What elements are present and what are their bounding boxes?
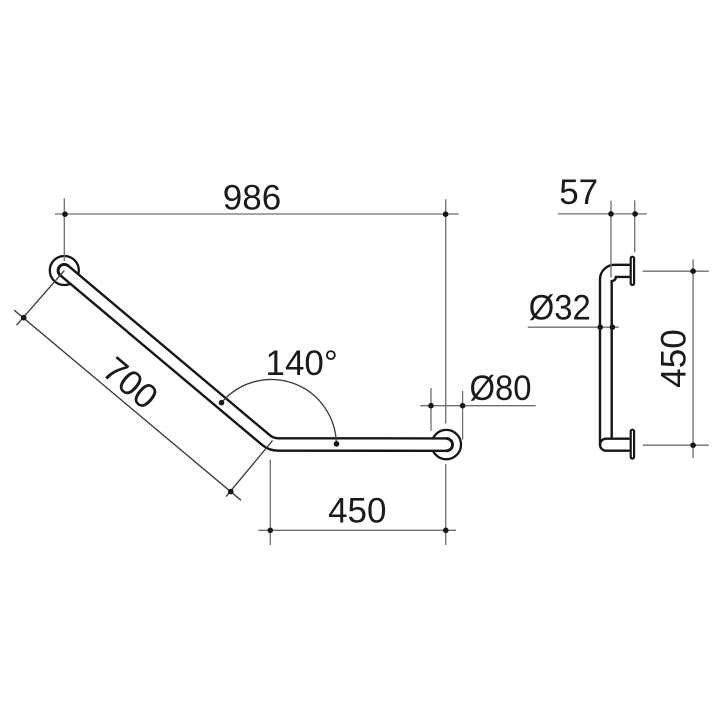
dot 700 lower xyxy=(228,489,234,495)
ext line 57 right vertical xyxy=(634,200,636,252)
dot 57 left xyxy=(608,211,614,217)
side view bottom tube top edge xyxy=(606,438,630,440)
ext line left flange vertical xyxy=(63,198,65,261)
svg-text:57: 57 xyxy=(559,173,598,212)
dot 986 right xyxy=(443,211,449,217)
dot arc end on horizontal bar xyxy=(334,441,340,447)
side view rail cap top quarter xyxy=(600,439,606,445)
dim line 450 bottom xyxy=(258,529,456,531)
bar end cap ring left xyxy=(58,264,68,275)
side view bottom flange plate xyxy=(631,430,634,459)
svg-text:986: 986 xyxy=(223,179,281,218)
dot 450 right top xyxy=(690,268,696,274)
grab rail bar (front view) outline xyxy=(64,271,446,445)
leader line O32 xyxy=(528,326,619,328)
witness line O80 left xyxy=(430,388,432,431)
flange outer circle right xyxy=(432,430,461,459)
dot O80 right xyxy=(460,403,466,409)
dot O32 left xyxy=(597,324,603,330)
dot 57 right xyxy=(632,211,638,217)
dim line 450 right vertical xyxy=(692,259,694,458)
bar end cap ring right xyxy=(446,438,452,450)
svg-text:Ø80: Ø80 xyxy=(470,369,532,408)
grab rail bar (front view) white interior xyxy=(64,271,446,445)
dim line 700 diagonal xyxy=(14,310,241,500)
ext line right flange vertical above xyxy=(445,199,447,423)
dot O80 left xyxy=(428,403,434,409)
ext line right flange vertical below xyxy=(445,464,447,545)
dot 450 bottom right xyxy=(443,528,449,534)
dot O32 right xyxy=(610,324,616,330)
svg-text:450: 450 xyxy=(654,329,693,387)
dim line 986 xyxy=(55,213,459,215)
svg-text:140°: 140° xyxy=(265,344,337,383)
side view rail outer contour xyxy=(600,265,630,451)
ext line 450 right top horizontal xyxy=(643,270,709,272)
dot 986 left xyxy=(62,211,68,217)
side view top flange plate xyxy=(631,257,634,285)
ext line 450 bottom left vertical xyxy=(269,460,271,545)
ext line 700 lower diagonal xyxy=(226,441,273,497)
dot 700 upper xyxy=(21,315,27,321)
side view rail inner contour xyxy=(612,277,630,439)
dot 450 bottom left xyxy=(268,528,274,534)
flange outer circle left xyxy=(50,256,79,285)
dot 450 right bottom xyxy=(690,442,696,448)
leader line O80 xyxy=(420,405,535,407)
ext line 57 left vertical xyxy=(610,201,612,278)
dim line 57 xyxy=(558,213,647,215)
ext line 450 right bottom horizontal xyxy=(643,444,709,446)
dot arc end on diagonal bar xyxy=(219,400,225,406)
witness line O80 right xyxy=(462,391,464,440)
svg-text:Ø32: Ø32 xyxy=(529,289,591,328)
svg-text:450: 450 xyxy=(328,492,386,531)
angle arc 140 xyxy=(222,379,337,444)
ext line 700 upper diagonal xyxy=(17,271,65,326)
